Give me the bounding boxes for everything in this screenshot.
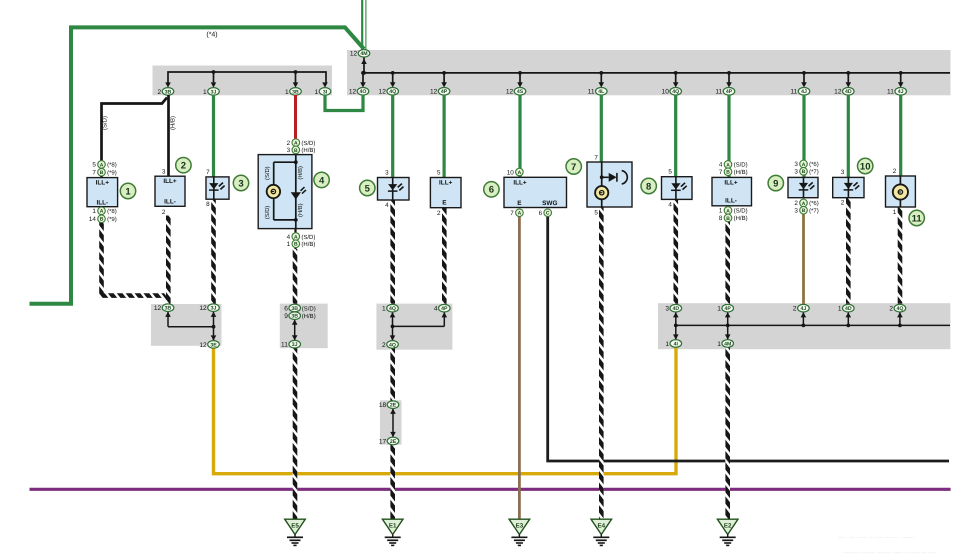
svg-text:6: 6 [489,185,494,196]
label 1 [120,183,135,198]
svg-text:10: 10 [507,169,515,176]
bus tap 1(3I) [322,82,328,87]
svg-text:4: 4 [719,162,723,169]
svg-text:(H/B): (H/B) [302,313,316,320]
svg-text:E3: E3 [516,523,524,530]
svg-text:2: 2 [889,306,893,313]
wire striped 1(4M) to ground E2 [725,347,730,519]
bus tap 12(4D) [846,71,850,75]
svg-text:C: C [546,211,550,217]
ILL+/ILL- unit box (right) [712,177,752,205]
svg-text:3B: 3B [165,89,172,95]
svg-text:2: 2 [794,200,798,207]
connector block shade C (lower left) [151,304,222,346]
component 4 box (bulb S/D, LED H/B) [258,155,312,229]
bus tap 12(4Q) [391,71,395,75]
svg-text:·–·—··–·—··–·—··—··–·—··–·—·: ·–·—··–·—··–·—··—··–·—··–·—· [843,550,937,557]
svg-text:2E: 2E [390,403,397,409]
svg-text:7: 7 [571,162,576,173]
bus tap 12(4O) [361,71,365,75]
svg-text:17: 17 [379,438,387,445]
svg-text:12: 12 [199,342,207,349]
svg-text:4Q: 4Q [389,306,396,312]
svg-text:B: B [294,242,298,248]
label 9 [768,175,783,190]
ground E3 [509,519,530,534]
wire striped component 3 to 12(3J) [211,198,216,304]
label 4 [314,172,329,187]
svg-text:ILL+: ILL+ [513,179,527,186]
component 2 box ILL+/ILL- [155,176,185,206]
ground E2 [717,519,738,534]
svg-text:2: 2 [382,342,386,349]
svg-text:E: E [517,200,522,207]
svg-text:9: 9 [773,179,778,190]
svg-text:11: 11 [281,342,288,349]
component 7 box diode+bulb [587,162,632,207]
svg-text:1: 1 [125,186,131,197]
wire striped 11(3J) to ground E5 [293,348,298,519]
svg-text:ILL+: ILL+ [439,180,453,187]
svg-text:A: A [518,170,522,176]
svg-text:5: 5 [92,162,96,169]
svg-text:12: 12 [834,89,842,96]
wire striped component 10 to 1(4D) [846,197,851,304]
wire black (S/D) to component 1 [102,98,168,178]
svg-text:1: 1 [838,306,842,313]
svg-text:4J: 4J [801,89,807,95]
bus line (right junction block) [363,72,950,74]
connector 17(2E) [387,437,399,445]
wire striped ILL+/ILL- to 1(4P) [727,206,729,221]
svg-text:4L: 4L [598,89,605,95]
svg-text:(*6): (*6) [809,200,819,207]
svg-text:2: 2 [793,306,797,313]
svg-text:4J: 4J [801,306,807,312]
svg-text:7: 7 [594,154,598,161]
svg-text:(H/B): (H/B) [297,166,304,180]
svg-text:(H/B): (H/B) [170,116,177,130]
connector 4(4P) [439,304,451,312]
label 8 [641,178,656,193]
wire striped component 1 to 12(3B) [102,222,169,303]
wire green to component 7 [600,95,603,162]
connector block A internals [294,320,296,341]
svg-text:(*9): (*9) [107,170,117,177]
connector 12(4M) [363,57,365,73]
svg-text:2: 2 [841,200,845,207]
svg-text:3B: 3B [291,306,298,312]
svg-text:4D: 4D [845,89,852,95]
wire green to component 10 [847,95,850,177]
wire striped component 11 to 2(4Q) [898,207,903,304]
svg-text:(*7): (*7) [809,169,819,176]
wire green to component 8 [674,95,677,177]
svg-text:4P: 4P [725,306,732,312]
svg-text:6: 6 [284,305,288,312]
ground E5 [285,519,306,534]
connector 2(4J) [798,304,810,312]
connector 1(4Q) [387,304,399,312]
svg-text:(S/D): (S/D) [102,116,109,130]
connector 12(3B) [162,304,174,312]
svg-text:(S/D): (S/D) [734,162,748,169]
connector 9(3B) [289,312,301,320]
svg-text:11: 11 [790,89,797,96]
svg-text:A: A [100,162,104,168]
connector block D internals [675,312,677,339]
svg-text:4: 4 [319,175,325,186]
wire brown component 6 E to ground E3 [518,216,521,519]
svg-text:3J: 3J [211,89,217,95]
svg-text:(H/B): (H/B) [301,147,315,154]
svg-text:3: 3 [794,169,798,176]
connector 2(4Q) [387,341,399,349]
connector 2(4Q) [894,304,906,312]
svg-text:4Q: 4Q [389,342,396,348]
svg-text:A: A [726,208,730,214]
svg-text:1: 1 [382,306,386,313]
svg-text:4J: 4J [898,89,904,95]
svg-text:11: 11 [887,89,894,96]
purple rail [30,488,951,491]
svg-text:5: 5 [668,169,672,176]
svg-text:3: 3 [385,169,389,176]
connector block shade A (below component 4) [280,304,328,349]
svg-text:(S/D): (S/D) [301,234,315,241]
bus tap 10(4Q) [674,71,678,75]
svg-text:4D: 4D [672,306,679,312]
svg-text:1: 1 [719,208,723,215]
svg-text:1: 1 [285,89,289,96]
svg-text:1: 1 [287,241,291,248]
svg-text:4Q: 4Q [896,306,903,312]
svg-text:18: 18 [379,402,387,409]
label 10 [858,158,873,173]
svg-text:6: 6 [539,210,543,217]
wire striped component 7 to ground E4 [599,207,604,520]
connector 12(3E) [208,341,220,349]
svg-text:4P: 4P [726,89,733,95]
svg-text:ILL-: ILL- [96,199,108,206]
connector 1(4M) [722,340,734,348]
svg-text:10: 10 [860,161,871,172]
svg-text:1: 1 [893,209,897,216]
black wire from SWG terminal [548,216,949,461]
svg-text:A: A [100,209,104,215]
label 11 [909,210,924,225]
svg-text:4O: 4O [360,89,367,95]
green pair from page top [361,0,363,50]
svg-text:12: 12 [350,51,358,58]
svg-text:B: B [294,148,298,154]
bus tap 1(3B) [294,70,298,74]
svg-text:(H/B): (H/B) [734,215,748,222]
svg-text:3: 3 [665,306,669,313]
component 11 bulb box [886,176,916,207]
svg-text:ILL+: ILL+ [96,179,110,186]
svg-text:3B: 3B [292,89,299,95]
label 3 [233,175,248,190]
connector 6(3B) [289,304,301,312]
ILL+/E unit box [430,178,461,208]
svg-text:(S/D): (S/D) [734,208,748,215]
connector block E internals [392,409,394,437]
svg-text:3: 3 [162,168,166,175]
svg-text:(*9): (*9) [107,216,117,223]
wire striped component 4 to 6(3B) [294,229,296,250]
svg-text:3: 3 [794,208,798,215]
bus tap 12(4S) [518,71,522,75]
svg-text:3I: 3I [323,89,328,95]
component 10 LED box [833,177,864,197]
ground E1 [382,519,403,534]
wire striped 17(2E) to ground E1 [390,445,395,520]
svg-text:3: 3 [841,169,845,176]
bus line (left junction block) [168,72,326,84]
wire green to component 3 [212,95,215,177]
svg-text:3E: 3E [210,342,217,348]
svg-text:10: 10 [662,89,670,96]
svg-text:(*8): (*8) [107,208,117,215]
connector 11(3J) [289,340,301,348]
svg-text:3: 3 [238,178,243,189]
svg-text:3: 3 [287,147,291,154]
wire striped component 8 to 3(4D) [673,199,678,304]
svg-text:B: B [802,208,806,214]
svg-text:(*4): (*4) [206,31,217,39]
svg-text:2: 2 [437,210,441,217]
wire striped component 5 to 1(4Q) [390,199,395,304]
svg-text:11: 11 [588,89,595,96]
svg-text:1: 1 [315,89,319,96]
bus tap 11(4P) [727,71,731,75]
svg-text:2: 2 [162,209,166,216]
svg-text:2: 2 [181,161,186,172]
connector 1(4D) [843,304,855,312]
svg-text:3B: 3B [291,314,298,320]
wire green to component 5 [391,95,394,178]
svg-text:12: 12 [506,89,514,96]
connector 3(4D) [670,304,682,312]
svg-text:1: 1 [665,341,669,348]
svg-text:B: B [726,170,730,176]
svg-text:5: 5 [594,209,598,216]
svg-text:2E: 2E [390,439,397,445]
svg-text:E1: E1 [389,523,397,530]
svg-text:4P: 4P [441,306,448,312]
svg-text:7: 7 [510,210,514,217]
junction block bus shade (top left) [153,66,333,96]
svg-text:4Q: 4Q [389,89,396,95]
yellow wire 12(3E) to 1(4I) [214,347,677,473]
green link 12(4O) to 1(3I) [325,95,363,111]
wire green to component 6 [518,95,521,177]
label 6 [484,182,499,197]
bus tap 11(4J) [802,71,806,75]
svg-text:2: 2 [287,140,291,147]
wire green to ILL+/ILL- unit [727,95,730,177]
svg-text:ILL+: ILL+ [163,178,177,185]
connector block shade D (lower right) [658,303,950,349]
svg-text:ILL-: ILL- [725,198,737,205]
svg-text:8: 8 [206,201,210,208]
svg-text:2: 2 [893,168,897,175]
connector block C internals [167,312,169,327]
svg-text:3J: 3J [292,342,298,348]
svg-text:(H/B): (H/B) [297,203,304,217]
svg-text:9: 9 [284,313,288,320]
junction block bus shade (top right) [347,50,951,95]
wire striped component 2 to 12(3B) [166,216,171,304]
wire green to component 11 [899,95,902,176]
wire green to component 9 [802,95,805,177]
svg-text:E5: E5 [291,523,299,530]
svg-text:ILL-: ILL- [164,199,176,206]
wire red 1(3B) to component 4 [294,95,297,141]
svg-text:4: 4 [434,306,438,313]
svg-text:4P: 4P [441,89,448,95]
svg-text:A: A [518,211,522,217]
svg-text:1: 1 [203,89,207,96]
svg-text:(*6): (*6) [809,161,819,168]
svg-text:B: B [100,217,104,223]
svg-text:4M: 4M [724,341,731,347]
svg-text:(*8): (*8) [107,162,117,169]
svg-text:(H/B): (H/B) [301,241,315,248]
component 6 box ILL+ E SWG [504,177,567,207]
component 9 LED box [788,177,818,197]
connector 18(2E) [387,401,399,409]
svg-text:E: E [442,200,447,207]
svg-text:12: 12 [154,305,162,312]
wire brown component 9 to 2(4J) [802,214,805,304]
ground E4 [591,519,612,534]
connector 12(3J) [208,304,220,312]
svg-text:E4: E4 [598,523,606,530]
svg-text:ILL+: ILL+ [724,179,738,186]
label 7 [566,159,581,174]
component 8 LED box [662,177,693,200]
svg-text:(*7): (*7) [809,208,819,215]
wire (*4) green feed [30,27,365,303]
label 5 [360,180,375,195]
svg-text:11: 11 [912,213,923,224]
label 2 [176,158,191,173]
bus tap 11(4J) [899,71,903,75]
svg-text:5: 5 [437,169,441,176]
svg-text:(S/D): (S/D) [264,206,271,220]
svg-text:4Q: 4Q [672,89,679,95]
svg-text:B: B [100,170,104,176]
wire striped 2(4Q) to 18(2E) [390,348,395,401]
component 3 LED box [206,177,229,199]
svg-text:14: 14 [89,216,97,223]
svg-text:(S/D): (S/D) [264,166,271,180]
bus tap 11(4L) [599,71,603,75]
svg-text:3: 3 [794,161,798,168]
svg-text:5: 5 [365,183,371,194]
wire black (H/B) to component 2 [167,95,170,176]
connector block B internals [392,312,394,340]
svg-text:4: 4 [385,202,389,209]
svg-text:8: 8 [719,215,723,222]
svg-text:8: 8 [646,181,651,192]
svg-text:7: 7 [719,169,723,176]
wire green to ILL+/E unit [443,95,446,178]
svg-text:11: 11 [715,89,722,96]
svg-text:3J: 3J [211,306,217,312]
svg-text:12: 12 [379,89,387,96]
svg-text:12: 12 [199,305,207,312]
svg-text:12: 12 [430,89,438,96]
connector 1(4I) [670,340,682,348]
bus tap 12(4P) [442,71,446,75]
svg-text:2: 2 [158,89,162,96]
svg-text:(S/D): (S/D) [302,305,316,312]
svg-text:1: 1 [92,208,96,215]
svg-text:B: B [726,216,730,222]
svg-text:7: 7 [206,169,210,176]
svg-text:4: 4 [287,234,291,241]
svg-text:B: B [802,169,806,175]
svg-text:4D: 4D [845,306,852,312]
svg-text:7: 7 [92,170,96,177]
wire striped ILL+/E to 4(4P) [442,207,447,304]
svg-text:A: A [802,162,806,168]
svg-text:4M: 4M [360,51,367,57]
svg-text:4S: 4S [517,89,524,95]
bus tap 1(3J) [212,70,216,74]
svg-text:(H/B): (H/B) [734,169,748,176]
svg-text:E2: E2 [724,523,732,530]
svg-text:SWG: SWG [542,200,557,207]
component 5 LED box [378,178,410,201]
connector block shade B (below component 5) [376,304,452,350]
connector 1(4P) [722,304,734,312]
svg-text:1: 1 [717,341,721,348]
svg-text:12: 12 [349,89,357,96]
svg-text:4: 4 [668,201,672,208]
svg-text:— ··– ·—· –··— –·— ··–—·: — ··– ·—· –··— –·— ··–—· [838,534,916,541]
connector block shade E (18/17) [380,400,402,444]
component 1 box ILL+/ILL- [87,178,118,207]
svg-text:(S/D): (S/D) [301,140,315,147]
svg-text:4I: 4I [674,341,679,347]
svg-text:1: 1 [717,306,721,313]
svg-text:3B: 3B [165,306,172,312]
bus tap 2(3B) [165,82,171,87]
